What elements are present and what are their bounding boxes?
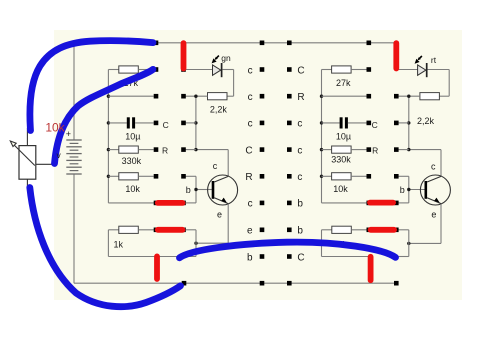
svg-text:C: C: [245, 145, 252, 156]
transistor Q2 pin labels: [400, 161, 437, 219]
svg-text:gn: gn: [221, 53, 231, 63]
resistor 2,2k left: [184, 93, 234, 115]
red bridge J4: [158, 227, 183, 233]
red bridge J1: [181, 43, 187, 68]
red bridge J5: [370, 200, 393, 206]
svg-text:b: b: [297, 199, 303, 210]
svg-text:e: e: [217, 210, 222, 220]
svg-text:330k: 330k: [331, 155, 351, 165]
base node wire right: [396, 176, 424, 203]
resistor 27k left: [108, 66, 154, 88]
blue wire W3 pot to bottom rail: [30, 188, 181, 307]
svg-text:c: c: [431, 161, 436, 171]
board background: [54, 30, 462, 300]
svg-text:10k: 10k: [45, 121, 65, 135]
right block rail: [320, 70, 323, 203]
svg-text:c: c: [248, 119, 253, 130]
svg-text:C: C: [297, 65, 304, 76]
resistor 10k right: [322, 173, 367, 194]
capacitor right wire right block: [396, 122, 409, 124]
base node wire left: [184, 176, 212, 203]
svg-text:2,2k: 2,2k: [417, 116, 435, 126]
LED gn light arrows: [212, 56, 219, 64]
board row letters middle: [245, 65, 304, 263]
svg-text:c: c: [297, 119, 302, 130]
red bridge J8: [368, 257, 374, 280]
LED gn: [184, 63, 234, 96]
potentiometer P1: [10, 128, 52, 188]
transistor Q1 pin labels: [186, 161, 222, 220]
red bridge J2: [393, 43, 399, 68]
red bridge J3: [158, 200, 183, 206]
LED rt: [396, 63, 449, 96]
svg-text:C: C: [372, 120, 378, 130]
red bridge J6: [371, 227, 395, 233]
wire row c right: [322, 95, 367, 97]
capacitor 10µ left: [108, 117, 153, 141]
board letters left block: [162, 120, 169, 155]
svg-text:c: c: [248, 65, 253, 76]
row 203 wire right: [322, 202, 369, 204]
svg-text:+: +: [66, 129, 71, 139]
resistor 330k left: [108, 146, 153, 166]
svg-text:1k: 1k: [113, 239, 123, 249]
svg-text:10k: 10k: [333, 184, 348, 194]
svg-text:c: c: [248, 199, 253, 210]
breadboard contact dots: [154, 41, 399, 286]
svg-text:b: b: [297, 226, 303, 237]
blue wire W2 pot wiper to 27k row: [55, 69, 154, 163]
resistor 10k left: [108, 173, 153, 194]
emitter wire right: [395, 204, 441, 257]
svg-text:e: e: [247, 226, 253, 237]
svg-text:R: R: [372, 145, 378, 155]
emitter wire left: [186, 204, 229, 257]
svg-text:e: e: [431, 210, 436, 220]
capacitor 10µ right: [322, 117, 367, 141]
transistor Q1: [208, 175, 238, 205]
svg-text:330k: 330k: [122, 156, 142, 166]
battery B1: [66, 140, 81, 174]
resistor 330k right: [322, 146, 367, 165]
left block rail: [107, 70, 110, 203]
battery supply rail top: [74, 43, 396, 140]
board letters right block: [372, 120, 379, 155]
LED rt light arrows: [415, 56, 422, 64]
collector node wire left: [194, 95, 228, 177]
resistor 27k right: [322, 66, 367, 88]
blue wire W4 bottom link: [180, 242, 396, 258]
svg-text:27k: 27k: [336, 78, 351, 88]
svg-text:10µ: 10µ: [336, 132, 351, 142]
collector row wire right: [396, 149, 409, 151]
svg-text:c: c: [297, 145, 302, 156]
resistor 1k left: [108, 226, 196, 256]
svg-text:R: R: [297, 92, 304, 103]
wire row c left: [108, 95, 153, 97]
svg-text:rt: rt: [431, 55, 437, 65]
svg-text:C: C: [297, 252, 304, 263]
svg-text:R: R: [162, 145, 168, 155]
capacitor right wire left block: [184, 122, 196, 124]
svg-text:2,2k: 2,2k: [210, 104, 228, 114]
svg-text:R: R: [245, 172, 252, 183]
svg-text:10µ: 10µ: [125, 132, 140, 142]
svg-text:b: b: [400, 185, 405, 195]
svg-text:10k: 10k: [125, 184, 140, 194]
transistor Q2: [420, 175, 450, 205]
svg-text:c: c: [297, 172, 302, 183]
svg-text:b: b: [247, 252, 253, 263]
svg-text:c: c: [213, 161, 218, 171]
blue wire W1 pot to top rail: [30, 41, 153, 131]
resistor 1k right: [322, 226, 372, 256]
red bridge J7: [154, 256, 160, 279]
svg-text:b: b: [186, 185, 191, 195]
row 203 wire left: [108, 202, 156, 204]
svg-text:C: C: [163, 120, 169, 130]
svg-text:c: c: [248, 92, 253, 103]
collector node wire right: [407, 95, 441, 177]
resistor 2,2k right: [396, 93, 449, 126]
collector row wire left: [184, 149, 196, 151]
svg-text:v: v: [56, 150, 61, 160]
battery supply rail bottom: [74, 174, 396, 283]
